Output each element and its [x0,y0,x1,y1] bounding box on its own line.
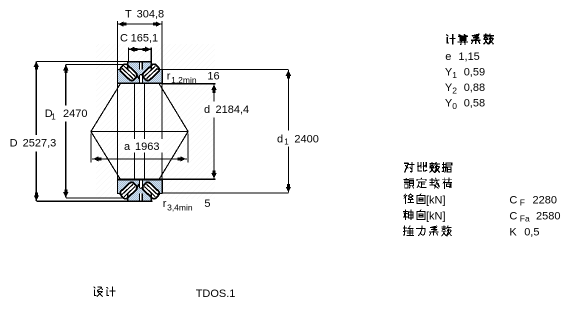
roller right (top) [141,181,160,200]
bearing cross-section bottom (mirrored) [117,180,162,202]
inner ring band (blue) [117,180,162,194]
wire: d extension top [163,83,216,85]
svg-text:1: 1 [452,70,457,80]
wire: bore vertical inner-right [144,84,146,139]
svg-text:2400: 2400 [294,133,318,145]
dimension T 304,8 [118,23,162,25]
wire: bore vertical inner-left [134,84,136,139]
svg-text:2: 2 [452,86,457,96]
inner ring flange lips [136,74,143,79]
svg-text:1,15: 1,15 [458,51,479,63]
svg-text:2280: 2280 [533,194,557,206]
svg-text:TDOS.1: TDOS.1 [196,288,236,300]
center split slot bottom (inner rings) [140,75,143,84]
svg-text:[kN]: [kN] [426,194,446,206]
svg-text:d: d [204,104,210,116]
wire: pressure-cone diagonal bottom-right [159,132,188,180]
svg-text:d: d [277,133,283,145]
outer ring halves (blue) [128,62,140,69]
row: rated load [404,178,414,188]
inner ring band (blue) [117,69,162,83]
svg-text:a: a [124,141,131,153]
row: radial [kN] CF 2280 [404,194,414,204]
outer ring halves (blue) [128,194,140,201]
svg-text:165,1: 165,1 [131,33,159,45]
svg-text:16: 16 [207,71,219,83]
wire: d1 extension top [163,68,289,70]
svg-text:C: C [509,210,517,222]
svg-text:0,58: 0,58 [464,98,485,110]
svg-text:K: K [509,226,517,238]
svg-text:1: 1 [284,138,289,147]
dimension C 165,1 [129,48,152,50]
svg-text:0: 0 [452,101,457,111]
svg-text:2470: 2470 [63,108,87,120]
svg-text:1,2min: 1,2min [171,75,197,85]
svg-text:2527,3: 2527,3 [23,138,57,150]
roller left (top) [119,181,138,200]
svg-text:F: F [520,197,525,207]
svg-text:3,4min: 3,4min [167,202,193,212]
svg-text:304,8: 304,8 [137,8,165,20]
hatched shaft/housing region [96,44,215,199]
center split slot top [140,194,143,201]
svg-text:0,59: 0,59 [464,67,485,79]
heading: calculation factors [447,35,455,44]
label r1,2min 16 [164,71,222,83]
dimension D 2527,3 [35,61,37,135]
wire: d extension bottom [163,178,216,180]
section border [128,194,152,202]
center split slot top [140,62,143,69]
dimension a 1963 [90,134,92,163]
dimension d1 2400 [287,70,289,130]
wire: d1 extension bottom [160,192,288,194]
section border [128,62,152,70]
label: design [94,287,103,296]
svg-text:e: e [445,51,451,63]
wire: D extension bottom [36,200,152,202]
wire: D1 extension top [66,64,128,66]
svg-text:5: 5 [204,198,210,210]
svg-text:2580: 2580 [536,210,560,222]
svg-text:Fa: Fa [520,213,530,223]
svg-text:1: 1 [51,112,56,121]
svg-text:1963: 1963 [135,141,159,153]
wire: axis center line [91,131,188,133]
roller right (top) [141,63,160,82]
svg-text:T: T [125,8,132,20]
heading: comparison data [405,163,414,172]
dimension D1 2470 [65,65,67,106]
wire: pressure-cone diagonal bottom-left [91,132,120,180]
svg-text:C: C [120,33,128,45]
svg-text:C: C [509,194,517,206]
svg-text:2184,4: 2184,4 [216,104,250,116]
svg-text:0,5: 0,5 [524,226,539,238]
wire: D extension top [36,60,128,62]
bearing cross-section top [117,62,162,84]
svg-text:[kN]: [kN] [426,210,446,222]
inner ring flange lips [136,184,143,189]
wire: pressure-cone diagonal top-left [91,84,120,132]
roller left (top) [119,63,138,82]
svg-text:D: D [10,138,18,150]
wire: shaft vertical right (T extension) [161,21,163,139]
wire: shaft vertical left [116,21,118,194]
wire: pressure-cone diagonal top-right [159,84,188,132]
row: thrust factor K 0,5 [404,226,414,236]
svg-text:0,88: 0,88 [464,82,485,94]
row: axial [kN] CFa 2580 [403,210,413,220]
center split slot bottom (inner rings) [140,180,143,189]
dimension d 2184,4 [203,104,251,116]
wire: D1 extension bottom [66,197,128,199]
